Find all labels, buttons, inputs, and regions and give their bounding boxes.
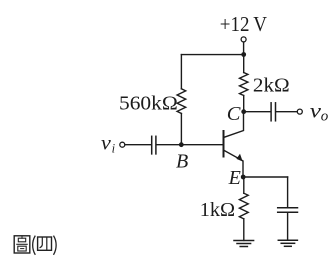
wire node C to C2 — [244, 111, 271, 113]
glyph tu middle bar — [17, 243, 27, 245]
glyph tu outer box — [14, 236, 30, 253]
glyph si right inner stroke — [46, 237, 48, 249]
svg-text:E: E — [228, 167, 241, 189]
glyph tu top inner box — [18, 238, 25, 242]
svg-text:1kΩ: 1kΩ — [200, 199, 235, 221]
resistor R1 560k — [177, 89, 186, 114]
svg-text:+12 V: +12 V — [220, 12, 267, 36]
node B — [179, 142, 184, 147]
node E — [241, 175, 246, 180]
wire R2 to node C — [243, 96, 245, 112]
capacitor C1 input coupling — [152, 136, 156, 154]
glyph si left inner stroke — [40, 237, 42, 247]
transistor Q1 collector lead — [224, 114, 244, 137]
wire C2 to vo terminal — [276, 111, 297, 113]
open paren — [33, 236, 35, 254]
svg-text:C: C — [227, 103, 241, 125]
glyph tu top tick — [21, 236, 23, 238]
svg-text:560kΩ: 560kΩ — [119, 93, 178, 115]
glyph tu bottom inner box — [18, 246, 26, 251]
wire base — [157, 144, 223, 146]
glyph tu innermost tick — [21, 248, 24, 250]
transistor Q1 base bar — [223, 131, 225, 157]
ground right — [278, 240, 297, 246]
capacitor C2 output coupling — [271, 103, 275, 121]
wire vi to C1 — [125, 144, 151, 146]
svg-text:B: B — [176, 151, 188, 173]
wire R3 to ground — [243, 219, 245, 241]
svg-text:v: v — [101, 133, 112, 155]
wire node E to bypass branch — [243, 176, 287, 178]
svg-text:o: o — [321, 108, 329, 124]
power terminal +12V — [241, 37, 246, 42]
wire bypass branch down — [287, 177, 289, 207]
output terminal vo — [297, 109, 302, 114]
resistor R3 1k — [239, 193, 248, 219]
wire terminal to top junction — [243, 42, 245, 54]
caption figure label 圖(四) — [14, 236, 56, 254]
wire node E down — [243, 177, 245, 193]
close paren — [54, 236, 56, 254]
node C — [241, 109, 246, 114]
transistor Q1 emitter lead — [224, 150, 243, 177]
glyph si outer box — [38, 237, 52, 250]
transistor Q1 emitter arrowhead — [236, 154, 242, 162]
input terminal vi — [120, 142, 125, 147]
wire top rail — [181, 54, 243, 56]
wire C3 to ground — [287, 213, 289, 240]
capacitor C3 bypass — [278, 208, 298, 213]
svg-text:i: i — [112, 141, 116, 155]
wire R1 to node B — [180, 114, 182, 145]
node top junction — [241, 52, 246, 57]
resistor R2 2k — [240, 73, 248, 96]
ground left — [234, 241, 254, 247]
wire left branch upper — [180, 55, 182, 89]
svg-text:2kΩ: 2kΩ — [253, 75, 290, 97]
wire top junction to R2 — [243, 55, 245, 73]
